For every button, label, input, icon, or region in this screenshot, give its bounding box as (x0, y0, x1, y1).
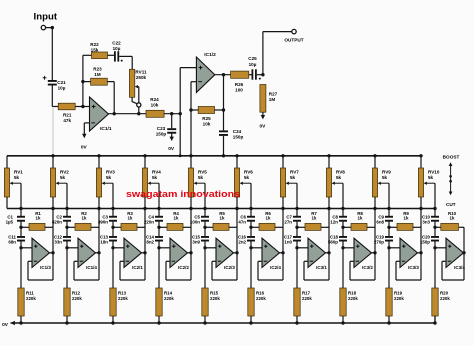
svg-text:R22: R22 (90, 42, 99, 47)
wire C17 to + input and R17 (295, 241, 308, 288)
op-amp IC1/4 (78, 238, 97, 270)
capacitor C9 6n8 (376, 214, 393, 224)
potentiometer RV2 5k (50, 154, 69, 210)
resistor R21 47k (58, 103, 75, 123)
capacitor C10 3n3 (422, 214, 439, 224)
wire C13 to + input and R13 (111, 241, 124, 288)
wire IC3/2 output (372, 209, 377, 281)
svg-text:R20: R20 (440, 290, 449, 295)
svg-text:R23: R23 (93, 67, 102, 72)
resistor R8 1k (351, 211, 367, 231)
wire RV2 wiper (56, 182, 69, 211)
wire IC1/3 output (50, 209, 55, 281)
capacitor C1 1&#181;5 (6, 214, 25, 224)
svg-text:R17: R17 (302, 290, 311, 295)
wire band 2 wiper drop (66, 209, 68, 217)
wire band 7 wiper drop (296, 209, 298, 217)
op-amp IC2/4 (262, 238, 281, 270)
svg-text:2n2: 2n2 (238, 240, 246, 245)
svg-text:12n: 12n (330, 220, 338, 225)
svg-text:270p: 270p (374, 240, 384, 245)
resistor R6 1k (259, 211, 275, 231)
wire IC1/1 - input to 0V (81, 123, 90, 150)
wire C3 to node (111, 222, 121, 237)
op-amp IC3/1 (308, 238, 327, 270)
node Input terminal (34, 11, 58, 30)
wire IC1/4 feedback loop (74, 261, 99, 280)
wire R1 to output line (45, 226, 53, 228)
wire IC3/1 output (326, 209, 331, 281)
op-amp IC3/3 (400, 238, 419, 270)
wire feedback bus left of IC1/1 (81, 55, 91, 106)
wire IC1/2 - input to bus (189, 82, 196, 156)
capacitor C17 1n0 (284, 234, 301, 244)
svg-text:R26: R26 (235, 82, 244, 87)
svg-text:5k: 5k (106, 175, 112, 180)
svg-text:IC1/2: IC1/2 (204, 52, 216, 58)
wire R5 to output line (229, 226, 237, 228)
svg-text:R21: R21 (63, 113, 72, 118)
svg-text:IC1/4: IC1/4 (86, 265, 97, 270)
resistor R3 1k (121, 211, 137, 231)
wire IC3/1 feedback loop (304, 261, 329, 280)
svg-text:RV7: RV7 (290, 170, 299, 175)
op-amp IC1/3 (32, 238, 51, 270)
svg-text:R11: R11 (26, 290, 34, 295)
svg-text:RV11: RV11 (135, 70, 147, 75)
wire C4 to node (157, 222, 167, 237)
svg-text:Input: Input (34, 11, 58, 21)
resistor R20 220k (432, 288, 451, 325)
wire R7 to output line (321, 226, 329, 228)
svg-text:8n2: 8n2 (146, 240, 154, 245)
svg-text:18n: 18n (100, 240, 108, 245)
svg-text:CUT: CUT (446, 202, 456, 207)
capacitor C12 33n (54, 234, 71, 244)
capacitor C18 560p (328, 234, 347, 244)
svg-text:R19: R19 (394, 290, 403, 295)
svg-text:IC2/4: IC2/4 (270, 265, 281, 270)
svg-text:10µ: 10µ (113, 46, 121, 51)
op-amp IC1/2 (196, 52, 216, 92)
resistor R24 10k (146, 97, 164, 117)
svg-text:IC2/1: IC2/1 (132, 265, 143, 270)
op-amp IC2/2 (170, 238, 189, 270)
svg-text:R24: R24 (150, 97, 159, 102)
capacitor C11 68n (8, 234, 25, 244)
svg-text:R27: R27 (269, 92, 278, 97)
svg-text:100n: 100n (190, 220, 200, 225)
svg-text:150p: 150p (420, 240, 430, 245)
op-amp IC1/1 (90, 97, 112, 132)
svg-text:390n: 390n (98, 220, 108, 225)
svg-text:1k: 1k (82, 216, 87, 221)
ground 0V below R27 (259, 112, 266, 129)
svg-text:5k: 5k (290, 175, 296, 180)
resistor R26 100 (231, 71, 252, 92)
wire C6 to node (249, 222, 259, 237)
svg-text:1n0: 1n0 (284, 240, 292, 245)
svg-text:RV4: RV4 (152, 170, 161, 175)
svg-text:RV2: RV2 (60, 170, 69, 175)
svg-text:RV6: RV6 (244, 170, 253, 175)
svg-text:IC3/2: IC3/2 (362, 265, 373, 270)
svg-text:IC2/3: IC2/3 (224, 265, 235, 270)
svg-text:5k: 5k (336, 175, 342, 180)
svg-text:150p: 150p (156, 131, 167, 136)
svg-text:C24: C24 (233, 129, 242, 134)
wire IC2/4 feedback loop (258, 261, 283, 280)
resistor R22 15k (90, 42, 107, 59)
svg-text:6n8: 6n8 (376, 220, 384, 225)
svg-text:5k: 5k (152, 175, 158, 180)
ground 0V below C23 (168, 134, 175, 152)
resistor R7 1k (305, 211, 321, 231)
wire C19 to + input and R19 (387, 241, 400, 288)
svg-text:1k: 1k (312, 216, 317, 221)
wire RV6 wiper (240, 182, 253, 211)
svg-text:C25: C25 (248, 56, 257, 61)
wire C7 to node (295, 222, 305, 237)
svg-text:33n: 33n (54, 240, 62, 245)
capacitor C7 27n (284, 214, 301, 224)
node OUTPUT terminal (263, 29, 304, 74)
potentiometer RV8 5k (326, 154, 345, 210)
resistor R14 220k (156, 288, 175, 325)
svg-text:1k: 1k (220, 216, 225, 221)
svg-text:220k: 220k (72, 296, 82, 301)
resistor R17 220k (294, 288, 313, 325)
capacitor C8 12n (330, 214, 347, 224)
watermark (126, 188, 240, 199)
wire IC3/4 feedback loop (442, 261, 464, 280)
svg-text:R15: R15 (210, 290, 219, 295)
svg-text:RV9: RV9 (382, 170, 391, 175)
svg-text:0V: 0V (168, 146, 175, 152)
wire IC1/1 output line (109, 112, 147, 115)
capacitor C21 10u (43, 76, 66, 91)
potentiometer RV5 5k (188, 154, 207, 210)
capacitor C6 47n (238, 214, 255, 224)
svg-text:1k: 1k (266, 216, 271, 221)
wire C21 to R21 (52, 85, 58, 106)
capacitor C25 10u (248, 56, 261, 80)
resistor R2 1k (75, 211, 91, 231)
svg-text:220k: 220k (302, 296, 312, 301)
svg-text:1k: 1k (450, 216, 455, 221)
wire R23 to IC1/1 output (107, 82, 114, 114)
svg-text:IC1/1: IC1/1 (100, 126, 112, 132)
svg-text:220k: 220k (256, 296, 266, 301)
wire RV4 wiper (148, 182, 161, 211)
wire band 4 wiper drop (158, 209, 160, 217)
wire R22 to C22 (108, 54, 115, 56)
svg-text:220k: 220k (440, 296, 450, 301)
svg-text:5k: 5k (14, 175, 20, 180)
capacitor C3 390n (98, 214, 117, 224)
svg-text:220k: 220k (164, 296, 174, 301)
potentiometer RV7 5k (280, 154, 299, 210)
op-amp IC3/2 (354, 238, 373, 270)
svg-text:1k: 1k (358, 216, 363, 221)
wire band 5 wiper drop (204, 209, 206, 217)
wire IC3/3 output (418, 209, 423, 281)
capacitor C15 3n9 (192, 234, 209, 244)
wire R4 to output line (183, 226, 191, 228)
resistor R19 220k (386, 288, 405, 325)
wire band 3 wiper drop (112, 209, 114, 217)
svg-text:10k: 10k (151, 103, 159, 108)
op-amp IC2/3 (216, 238, 235, 270)
potentiometer RV9 5k (372, 154, 391, 210)
wire R21 to IC1/1 + input (75, 105, 89, 108)
svg-text:C23: C23 (157, 126, 166, 131)
svg-text:0V: 0V (259, 124, 266, 130)
node BOOST/CUT indicator (443, 154, 460, 207)
svg-text:1k: 1k (128, 216, 133, 221)
wire 0V ground rail (2, 316, 435, 328)
wire IC2/4 output (280, 209, 285, 281)
wire C11 to + input and R11 (19, 241, 32, 288)
op-amp IC3/4 (446, 238, 465, 270)
potentiometer RV1 5k (4, 156, 23, 209)
wire R6 to output line (275, 226, 283, 228)
wire IC3/3 feedback loop (396, 261, 421, 280)
potentiometer RV10 5k (418, 154, 439, 210)
svg-text:R13: R13 (118, 290, 127, 295)
svg-text:IC1/3: IC1/3 (40, 265, 51, 270)
wire IC3/2 feedback loop (350, 261, 375, 280)
svg-text:1M: 1M (269, 97, 276, 102)
svg-text:R25: R25 (202, 116, 211, 121)
wire IC2/2 output (188, 209, 193, 281)
wire R2 to output line (91, 226, 99, 228)
wire band 8 wiper drop (342, 209, 344, 217)
svg-text:RV10: RV10 (428, 170, 440, 175)
wire C18 to + input and R18 (341, 241, 354, 288)
svg-text:250k: 250k (136, 75, 147, 80)
svg-text:C21: C21 (57, 80, 66, 85)
capacitor C23 150p (156, 114, 176, 137)
svg-text:220k: 220k (348, 296, 358, 301)
wire IC1/3 feedback loop (28, 261, 53, 280)
svg-text:27n: 27n (284, 220, 292, 225)
svg-text:220k: 220k (394, 296, 404, 301)
svg-text:68n: 68n (8, 240, 16, 245)
svg-text:IC3/3: IC3/3 (408, 265, 419, 270)
wire bottom bus rail (7, 208, 435, 210)
resistor R15 220k (202, 288, 221, 325)
svg-text:820n: 820n (52, 220, 62, 225)
resistor R1 1k (29, 211, 45, 231)
svg-text:1M: 1M (94, 72, 101, 77)
resistor R5 1k (213, 211, 229, 231)
wire RV11 wiper to output node (132, 87, 141, 114)
wire C8 to node (341, 222, 351, 237)
potentiometer RV6 5k (234, 154, 253, 210)
resistor R9 1k (397, 211, 413, 231)
svg-text:220n: 220n (144, 220, 154, 225)
resistor R23 1M (feedback) (83, 67, 107, 86)
capacitor C4 220n (144, 214, 163, 224)
svg-text:47k: 47k (63, 118, 71, 123)
wire IC2/3 feedback loop (212, 261, 237, 280)
wire IC2/2 feedback loop (166, 261, 191, 280)
resistor R11 220k (18, 288, 37, 325)
svg-text:100: 100 (235, 87, 243, 92)
svg-text:0V: 0V (2, 322, 9, 328)
svg-text:47n: 47n (238, 220, 246, 225)
svg-text:150p: 150p (233, 135, 244, 140)
svg-text:5k: 5k (382, 175, 388, 180)
resistor R18 220k (340, 288, 359, 325)
svg-text:560p: 560p (328, 240, 338, 245)
wire IC1/2 output (215, 73, 231, 76)
capacitor C5 100n (190, 214, 209, 224)
potentiometer RV11 250k (129, 69, 147, 97)
svg-text:5k: 5k (244, 175, 250, 180)
wire RV9 wiper (378, 182, 391, 211)
wire input node to top bus (faint) (52, 108, 54, 156)
wire IC1/4 output (96, 209, 101, 281)
potentiometer RV3 5k (96, 154, 115, 210)
wire IC2/3 output (234, 209, 239, 281)
capacitor C14 8n2 (146, 234, 163, 244)
svg-text:RV3: RV3 (106, 170, 115, 175)
wire C20 to + input and R20 (433, 241, 446, 288)
wire C9 to node (387, 222, 397, 237)
capacitor C16 2n2 (238, 234, 255, 244)
svg-text:3n3: 3n3 (422, 220, 430, 225)
wire R10 to output line (459, 226, 464, 228)
svg-text:220k: 220k (26, 296, 36, 301)
svg-text:1k: 1k (404, 216, 409, 221)
svg-text:R14: R14 (164, 290, 173, 295)
capacitor C24 150p (219, 75, 243, 156)
wire band 1 wiper drop (20, 209, 22, 217)
wire C22 to RV11 (119, 56, 132, 69)
svg-text:10k: 10k (203, 121, 211, 126)
svg-text:1k: 1k (36, 216, 41, 221)
wire R24 to IC1/2 + input (164, 68, 196, 158)
wire RV1 wiper (10, 182, 23, 211)
svg-text:C22: C22 (112, 41, 121, 46)
wire IC2/1 output (142, 209, 147, 281)
svg-text:RV8: RV8 (336, 170, 345, 175)
svg-text:R16: R16 (256, 290, 265, 295)
wire R9 to output line (413, 226, 421, 228)
svg-text:RV5: RV5 (198, 170, 207, 175)
svg-text:1µ5: 1µ5 (6, 220, 14, 225)
wire C5 to node (203, 222, 213, 237)
svg-text:R18: R18 (348, 290, 357, 295)
wire RV10 wiper (424, 182, 437, 211)
wire band 10 wiper drop (434, 209, 436, 217)
svg-text:3n9: 3n9 (192, 240, 200, 245)
svg-text:R12: R12 (72, 290, 81, 295)
wire input terminal to C21 (46, 26, 54, 80)
capacitor C22 10u (112, 41, 122, 62)
wire RV5 wiper (194, 182, 207, 211)
svg-text:BOOST: BOOST (443, 154, 460, 159)
op-amp IC2/1 (124, 238, 143, 270)
potentiometer RV4 5k (142, 154, 161, 210)
wire C12 to + input and R12 (65, 241, 78, 288)
svg-text:0V: 0V (81, 144, 88, 150)
resistor R16 220k (248, 288, 267, 325)
resistor R10 1k (441, 211, 459, 231)
svg-text:10µ: 10µ (58, 86, 66, 91)
wire RV7 wiper (286, 182, 299, 211)
wire C14 to + input and R14 (157, 241, 170, 288)
svg-text:IC3/1: IC3/1 (316, 265, 327, 270)
wire RV3 wiper (102, 182, 115, 211)
svg-text:OUTPUT: OUTPUT (284, 37, 303, 42)
wire IC2/1 feedback loop (120, 261, 145, 280)
svg-text:swagatam innovations: swagatam innovations (126, 188, 240, 199)
wire C2 to node (65, 222, 75, 237)
svg-text:220k: 220k (210, 296, 220, 301)
resistor R25 10k (191, 107, 225, 127)
wire IC3/4 output (462, 227, 465, 280)
capacitor C19 270p (374, 234, 393, 244)
svg-text:220k: 220k (118, 296, 128, 301)
resistor R4 1k (167, 211, 183, 231)
svg-text:10µ: 10µ (249, 62, 257, 67)
wire C10 to node (433, 222, 443, 237)
resistor R27 1M (260, 85, 278, 113)
wire C25 to output node (257, 73, 265, 76)
resistor R12 220k (64, 288, 83, 325)
wire top bus rail (7, 154, 421, 157)
wire C16 to + input and R16 (249, 241, 262, 288)
wire RV8 wiper (332, 182, 345, 211)
capacitor C2 820n (52, 214, 71, 224)
resistor R13 220k (110, 288, 129, 325)
svg-text:5k: 5k (428, 175, 434, 180)
svg-text:IC2/2: IC2/2 (178, 265, 189, 270)
wire C1 to node (19, 222, 29, 237)
svg-text:15k: 15k (91, 47, 99, 52)
capacitor C20 150p (420, 234, 439, 244)
svg-text:5k: 5k (60, 175, 66, 180)
wire R8 to output line (367, 226, 375, 228)
capacitor C13 18n (100, 234, 117, 244)
svg-text:1k: 1k (174, 216, 179, 221)
svg-text:5k: 5k (198, 175, 204, 180)
wire R3 to output line (137, 226, 145, 228)
wire band 6 wiper drop (250, 209, 252, 217)
wire band 9 wiper drop (388, 209, 390, 217)
svg-text:RV1: RV1 (14, 170, 23, 175)
wire C15 to + input and R15 (203, 241, 216, 288)
